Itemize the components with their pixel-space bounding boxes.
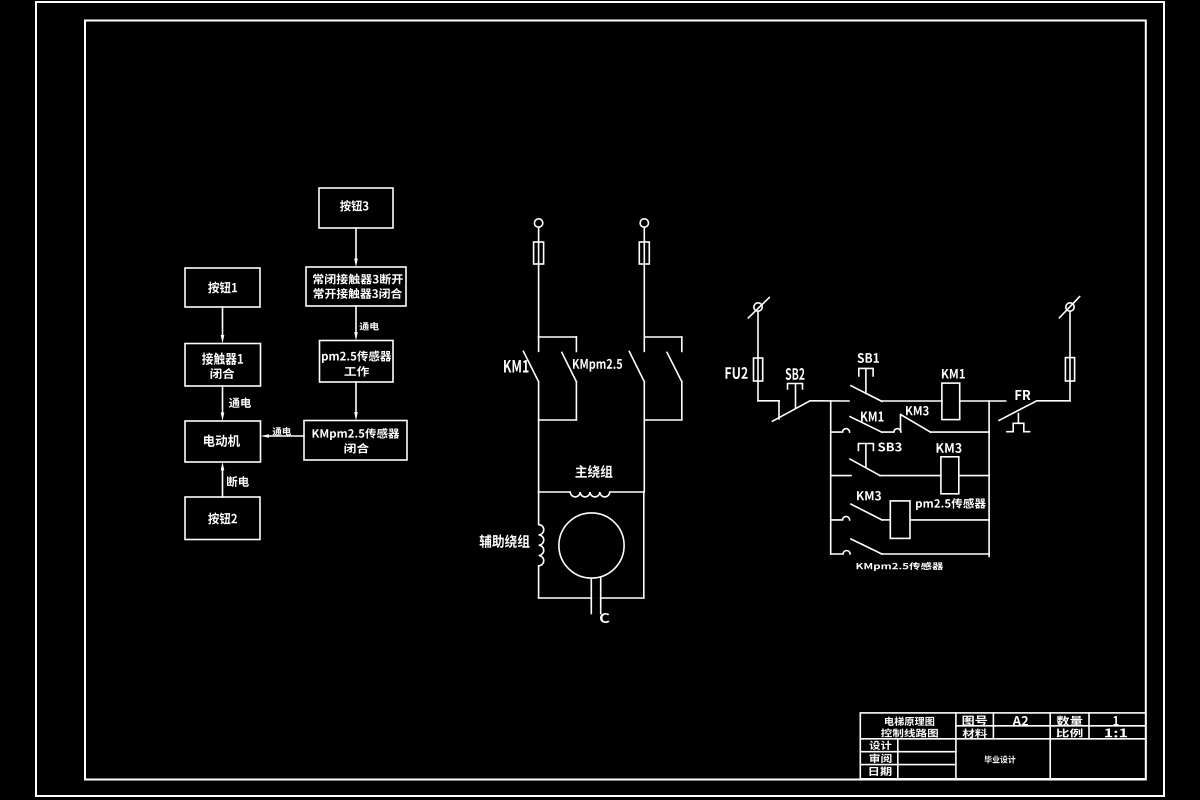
label 毕业设计 [985,756,1016,764]
label pm2.5传感器 [322,351,391,364]
contact KM1 pole2 stubs [575,337,577,420]
label KM3 (coil) [937,443,962,453]
label 工作 [344,366,368,376]
wire to SB2 [758,400,779,402]
arrow button1 -> contactor1 [222,307,224,337]
button SB3 actuator [858,444,873,468]
contact KMpm2.5 pole1 blade [629,352,644,382]
label 日期 [869,767,891,776]
label KM1 (aux contact) [861,411,884,421]
coil KM3 [941,457,959,494]
wire FR to T4 [1037,400,1070,402]
label KMpm2.5传感器 [857,562,944,571]
label 闭合 (contactor1) [211,368,235,379]
block: button3 (按钮3) [319,188,393,228]
wire rung4 a [831,516,850,519]
label C [600,613,609,623]
label 控制线路图 [881,728,938,737]
wire rung2 b [882,429,901,432]
wire rung1 a [810,400,849,402]
label SB2 [786,368,805,380]
wire rung4 b [882,519,890,521]
wire L1 top link [539,336,577,338]
terminal T4 [1066,303,1074,311]
wire motor bottom [539,597,644,599]
arrow KMpm2.5 -> motor (通电) [268,435,305,437]
label 通电 (left) [229,397,251,407]
wire KMpm2.5 bottom link [644,419,682,421]
label 主绕组 [575,465,612,478]
label 通电 (horizontal arrow) [273,427,292,435]
label 接触器1 [202,352,243,365]
title block horizontals [860,726,1146,765]
terminal T4 slash [1059,297,1079,318]
wire rung3 c [959,475,989,477]
label A2 [1013,716,1029,726]
contact KMpm2.5 blade [851,539,882,554]
arrow button3 -> contactor3 [355,228,357,260]
label 按钮1 [208,282,237,294]
block: button2 (按钮2) [185,497,260,540]
label 常开接触器3闭合 [314,288,402,299]
label 1:1 [1105,728,1127,737]
wire rung5 a [831,551,850,555]
arrow pm2.5 sensor -> KMpm2.5 [355,382,357,414]
wire rung5 b [882,553,989,555]
block: NC contactor3 opens / NO contactor3 closes [306,267,406,306]
pm2.5 sensor element [890,501,910,539]
terminal T3 [754,303,762,311]
contact KM1 pole1 stubs [538,337,540,492]
wire rung2 a [831,429,850,432]
right ladder rail [988,401,990,557]
wire KM1 bottom link [539,419,577,421]
label FR [1015,390,1030,400]
label 电动机 [204,434,240,446]
label SB3 [878,442,902,451]
wire rung3 b [880,475,941,477]
capacitor lead left [590,578,592,613]
contact KMpm2.5 pole2 blade [667,352,682,381]
label 按钮3 [340,200,368,211]
wire T3 down [757,311,759,401]
wire L2 top link [644,336,682,338]
fuse FU2 [754,358,763,381]
wire L1 down [538,227,540,337]
thermal relay FR element [1007,414,1030,432]
block: button1 (按钮1) [185,268,260,307]
wire rung4 c [910,519,989,521]
main winding (主绕组) coil [539,492,644,497]
button SB2 actuator [788,384,803,409]
label 电梯原理图 [885,717,934,726]
label 1 (quantity) [1114,716,1119,725]
contact KMpm2.5 pole2 stubs [681,337,683,420]
label 常闭接触器3断开 [313,274,403,285]
block: pm2.5 sensor works [320,341,394,383]
terminal L2 [640,219,648,227]
fuse FU (L2) [639,242,649,264]
arrow button2 -> motor (断电) [222,469,224,497]
label KM1 (coil) [942,369,965,378]
contact KM3 blade (rung4) [851,504,882,520]
contact KM1 pole2 blade [562,352,577,381]
button SB2 stub [778,401,780,419]
label KM1 (main contact) [504,360,528,373]
fuse FU (T4) [1065,358,1074,381]
label KMpm2.5传感器 [313,428,400,440]
label 数量 [1056,716,1082,726]
label pm2.5传感器 [916,498,986,510]
label 辅助绕组 [479,534,529,547]
contact KM1 aux blade [850,417,882,433]
wire motor right side [643,492,645,598]
button SB2 blade [773,401,811,421]
button SB1 blade [851,386,882,402]
label SB1 [858,353,879,363]
wire L2 down [643,227,645,337]
label 审阅 [870,753,892,763]
fuse FU (L1) [534,242,544,264]
button SB1 actuator [859,368,873,393]
arrow contactor3 -> pm2.5 sensor (通电) [355,306,357,334]
label 图号 [963,716,988,726]
label 通电 [359,322,378,330]
contact KM1 pole1 blade [523,351,538,381]
thermal relay FR blade [999,401,1037,421]
wire rung1 c [960,400,1006,402]
capacitor lead right [600,577,602,614]
arrow contactor1 -> motor (通电) [222,386,224,414]
block: contactor1 closes [185,344,261,387]
label 设计 [869,741,891,750]
wire rung3 a [831,475,851,477]
contact KM3 aux blade [901,415,931,433]
wire rung2 c [931,431,990,433]
label 按钮2 [208,513,237,525]
label 比例 [1056,728,1082,737]
title block verticals [898,713,1089,779]
motor M [559,513,624,578]
label 断电 [227,476,249,487]
label 闭合 [344,443,368,453]
label 材料 [963,729,988,738]
contact KMpm2.5 pole1 stubs [643,337,645,492]
block: KMpm2.5 sensor contact closes [304,421,407,461]
wire rung1 b [882,400,942,402]
terminal L1 [534,219,542,227]
label KMpm2.5 (main contact) [573,359,622,372]
left ladder rail [830,401,832,554]
title block frame [860,713,1146,779]
button SB3 blade [850,459,880,476]
label KM3 (aux contact) [906,406,929,416]
label KM3 (rung4) [857,491,881,501]
auxiliary winding (辅助绕组) coil [539,492,544,598]
label FU2 [726,367,748,379]
coil KM1 [942,383,960,420]
block: motor (电动机) [185,421,261,462]
wire T4 down [1069,311,1071,401]
terminal T3 slash [748,298,769,318]
